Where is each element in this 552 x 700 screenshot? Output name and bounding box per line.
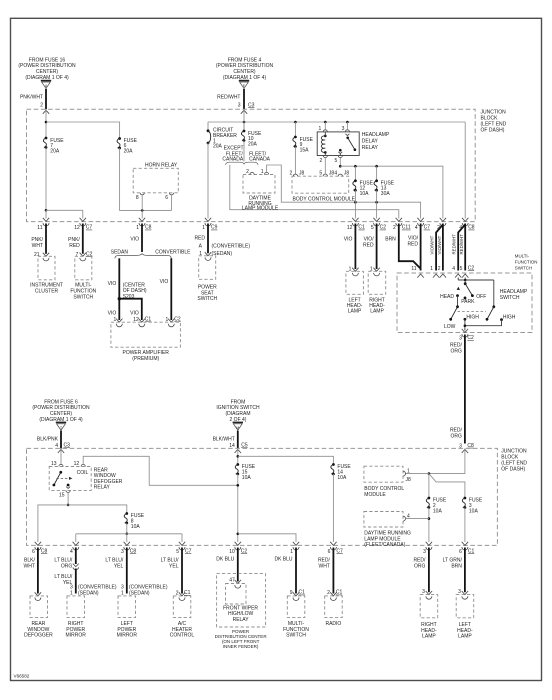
wire fuse 15 down to pin 10 C2 [237, 474, 239, 542]
svg-text:VIO: VIO [130, 311, 139, 317]
MFS entry connectors [417, 274, 423, 278]
wire PNK/WHT feed to junction block [45, 89, 47, 109]
svg-text:C1: C1 [468, 549, 475, 555]
svg-text:OF DASH): OF DASH) [481, 128, 505, 134]
JB1 exit pin 11 [43, 218, 49, 226]
wire RED/WHT pair to MFS pins 4 and 5 [458, 225, 465, 271]
defogger relay pin 13 connector [59, 464, 63, 466]
fuse 9 15A [294, 122, 296, 137]
svg-text:C8: C8 [468, 225, 475, 231]
svg-text:2: 2 [393, 225, 396, 231]
svg-text:C3: C3 [64, 443, 71, 449]
rear window defogger box [35, 592, 41, 600]
svg-text:RED: RED [69, 243, 80, 249]
wire VIO to amplifier split [141, 224, 143, 253]
svg-text:5: 5 [371, 225, 374, 231]
svg-text:1: 1 [290, 549, 293, 555]
passing switch blade [487, 307, 494, 320]
wire LT BLU/YEL to right power mirror [75, 569, 77, 594]
node DRL2 join [428, 517, 431, 520]
fuse 10 20A [243, 122, 245, 131]
instrument cluster pin 21 [43, 253, 49, 261]
JB1 exit pin 1 C8 [139, 218, 145, 226]
wire circuit breaker down to pin 1 C9 [207, 143, 209, 219]
svg-text:3: 3 [459, 336, 462, 342]
svg-text:3: 3 [423, 549, 426, 555]
svg-text:RELAY: RELAY [362, 145, 379, 151]
svg-text:2: 2 [438, 266, 441, 272]
JB2 exit pin 6 C1 [462, 542, 468, 550]
svg-text:RADIO: RADIO [325, 621, 341, 627]
svg-text:2: 2 [290, 171, 293, 177]
wire DRL2 pin 4 to fuse 2 line [406, 518, 429, 520]
junction block 1 (left end of dash) dashed border [27, 109, 476, 221]
svg-text:30A: 30A [381, 191, 391, 197]
svg-text:6: 6 [328, 549, 331, 555]
svg-text:15A: 15A [300, 147, 310, 153]
wire high contact to output [465, 320, 502, 326]
label EXCEPT FLEET/CANADA [222, 146, 244, 163]
wire entry down to bus [243, 109, 245, 131]
svg-text:C11: C11 [402, 225, 411, 231]
wire drop to pin 12 C1 [354, 202, 356, 218]
relay switch throw to pin 5 [339, 149, 342, 152]
svg-text:C2: C2 [467, 335, 474, 341]
wire RED/WHT to radio [332, 548, 334, 594]
node bus entry [243, 121, 246, 124]
svg-text:4: 4 [415, 225, 418, 231]
feed header FROM FUSE 4 [216, 57, 274, 81]
wiper direction arrow [457, 287, 460, 290]
wire fuse 7 output [45, 148, 47, 211]
svg-text:SWITCH: SWITCH [73, 294, 93, 300]
entry connector pin 2 [43, 110, 49, 114]
svg-text:5: 5 [335, 158, 338, 164]
svg-text:10A: 10A [360, 191, 370, 197]
svg-text:BLK/WHT: BLK/WHT [213, 437, 235, 443]
svg-text:15: 15 [59, 493, 65, 499]
svg-text:WHT: WHT [319, 564, 330, 570]
wire horn relay pin 6 [171, 195, 173, 210]
JB1 exit pin 4 C7 [417, 218, 423, 226]
instrument cluster box [38, 256, 55, 280]
svg-text:SWITCH: SWITCH [197, 296, 217, 302]
svg-text:VIO/WHT: VIO/WHT [437, 235, 442, 254]
body control module box (lower) [364, 466, 403, 482]
svg-text:C8: C8 [41, 549, 48, 555]
svg-text:3: 3 [458, 589, 461, 595]
svg-text:ORG: ORG [451, 348, 463, 354]
label daytime running lamp module [242, 196, 279, 212]
wire drop to pin 3 C8 [126, 534, 128, 542]
node relay output [339, 165, 342, 168]
svg-text:J8: J8 [344, 171, 350, 177]
left headlamp box (bottom) [462, 591, 468, 599]
svg-text:2: 2 [320, 158, 323, 164]
wire BLK/WHT to rear window defogger [37, 548, 39, 594]
svg-text:C2: C2 [380, 225, 387, 231]
svg-text:BRN: BRN [385, 236, 396, 242]
power amplifier box [111, 322, 180, 347]
wire drop to pin 11 [45, 210, 47, 218]
node bus relay pin 3 [346, 121, 349, 124]
splice node S203 [118, 297, 121, 300]
wire fuse 10 down to market brace [243, 141, 245, 162]
wire VIO/WHT pair to MFS pins 1 and 2 [436, 225, 443, 271]
svg-text:6: 6 [165, 195, 168, 201]
svg-text:12: 12 [347, 225, 353, 231]
wire PNK/WHT to instrument cluster [45, 224, 47, 254]
wire fuse 14 down to pin 6 C7 [332, 474, 334, 542]
svg-text:V66582: V66582 [14, 673, 30, 678]
svg-text:C8: C8 [130, 549, 137, 555]
relay pin 2 connector [323, 156, 327, 158]
fuse 8 10A [124, 512, 128, 524]
svg-text:LAMP: LAMP [370, 309, 384, 315]
JB1 exit pin 1 C9 [205, 218, 211, 226]
wire pin 15 down [67, 493, 69, 505]
relay switch contact [59, 471, 62, 474]
wire RED to power seat switch [207, 224, 209, 254]
multifunction switch pin 7 C2 [80, 253, 86, 261]
node bus fuse 9 [294, 121, 297, 124]
svg-text:3: 3 [422, 589, 425, 595]
svg-text:MULTI-: MULTI- [515, 253, 530, 258]
relay pin 5 connector [338, 156, 342, 158]
wire RED/ORG long run to JB2 [464, 335, 466, 444]
svg-text:A: A [199, 244, 203, 250]
right headlamp box [368, 271, 386, 294]
svg-text:VIO: VIO [108, 281, 117, 287]
left power mirror box [118, 596, 136, 618]
svg-text:YEL: YEL [114, 564, 124, 570]
fuse 14 10A [331, 463, 335, 475]
svg-text:COIL: COIL [77, 470, 89, 476]
svg-text:YEL: YEL [169, 564, 179, 570]
svg-text:C1: C1 [336, 590, 343, 596]
body control module dashed box [292, 176, 349, 193]
node line A fuse 12 [354, 201, 357, 204]
svg-text:OF DASH): OF DASH) [501, 467, 525, 473]
svg-text:1: 1 [430, 266, 433, 272]
svg-text:RED: RED [194, 236, 205, 242]
svg-text:2: 2 [40, 102, 43, 108]
svg-text:1: 1 [319, 126, 322, 132]
JB1 exit pin 12 C7 [80, 218, 86, 226]
fuse 15 10A [235, 463, 239, 475]
headlamp delay relay box [317, 132, 359, 156]
wire defogger output left to pin 6 C8 [38, 505, 68, 542]
JB2 exit pin 6 C7 [330, 542, 336, 550]
svg-text:4: 4 [334, 171, 337, 177]
wire HEAD to dimmer [457, 296, 459, 307]
node fuse15/relay12 join [237, 484, 240, 487]
svg-text:12: 12 [74, 461, 80, 467]
svg-text:M: M [236, 426, 239, 430]
rotary switch wiper to OFF [465, 284, 472, 296]
wire fuse 2 down to pin 3 [428, 508, 430, 543]
fuse 7 20A [43, 137, 47, 149]
front wiper high/low relay box [235, 580, 241, 588]
daytime running lamp module (fleet/canada) box [364, 512, 403, 528]
wire to BCM2 pin 1 J8 [406, 473, 429, 475]
svg-text:(SEDAN): (SEDAN) [78, 591, 99, 597]
svg-text:C2: C2 [241, 549, 248, 555]
fuse 3 10A [462, 497, 466, 509]
daytime running lamp module dashed box [243, 175, 275, 194]
svg-text:VIO: VIO [130, 236, 139, 242]
svg-text:BREAKER: BREAKER [213, 133, 237, 139]
wire branch to fuse 6 [46, 122, 120, 139]
node branch to fuse 6 [45, 121, 48, 124]
DRL pin 2 connector [250, 172, 254, 174]
horn relay pin 6 connector [169, 193, 173, 195]
wire BLK/PNK feed [60, 431, 62, 449]
HIGH contact right [500, 318, 503, 321]
svg-text:7: 7 [76, 252, 79, 258]
svg-text:10A: 10A [469, 508, 479, 514]
svg-text:ORG: ORG [61, 564, 73, 570]
BCM pin 2 J8 connector [293, 174, 297, 176]
fuse 13 30A [376, 166, 378, 181]
node pin15 junction [67, 504, 70, 507]
sedan/convertible brace [115, 254, 171, 259]
wire BLK/PNK to defogger relay pin 13 [60, 448, 62, 464]
node bus relay pin 1 [324, 121, 327, 124]
svg-text:RED/WHT: RED/WHT [452, 234, 457, 255]
svg-text:20A: 20A [124, 148, 134, 154]
svg-text:HIGH: HIGH [466, 314, 479, 320]
svg-text:HIGH: HIGH [503, 314, 516, 320]
svg-text:3: 3 [238, 102, 241, 108]
svg-text:WHT: WHT [32, 243, 43, 249]
svg-text:HEAD: HEAD [440, 294, 454, 300]
wire VIO/RED to right headlamp [376, 224, 378, 270]
a/c heater control box [179, 592, 185, 600]
svg-text:SEDAN: SEDAN [111, 249, 129, 255]
svg-text:RED: RED [363, 242, 374, 248]
svg-text:13: 13 [51, 461, 57, 467]
wire BRN to MFS pin 11 [399, 224, 421, 269]
svg-text:VIO/WHT: VIO/WHT [430, 235, 435, 254]
JB2 exit pin 3 C8 [124, 542, 130, 550]
JB1 exit pin 2 C11 [396, 218, 402, 226]
wire jog to fuse 3 [429, 474, 465, 498]
svg-text:C1: C1 [145, 317, 152, 323]
svg-text:5: 5 [319, 171, 322, 177]
JB1 exit pin 5 C2 [373, 218, 379, 226]
wire relay output line to pin 2 drop [340, 166, 443, 218]
wire branch to pin 1 [238, 534, 296, 542]
svg-text:MIRROR: MIRROR [117, 633, 138, 639]
JB2 exit pin 4 [73, 542, 79, 550]
fuse 2 10A [426, 497, 430, 509]
svg-text:1: 1 [261, 169, 264, 175]
svg-text:RED: RED [407, 242, 418, 248]
svg-text:10: 10 [229, 549, 235, 555]
relay actuation dashed arrow [57, 477, 70, 479]
entry connector pin 3 C3 [241, 110, 247, 114]
svg-text:C2: C2 [468, 265, 475, 271]
wire DRL pin1 output elbow to line A [267, 165, 421, 219]
JB2 exit pin 10 C2 [235, 542, 241, 550]
svg-text:2: 2 [246, 169, 249, 175]
svg-text:12: 12 [74, 225, 80, 231]
svg-text:C7: C7 [185, 549, 192, 555]
rear window defogger relay dashed box [49, 467, 91, 491]
wire RED/WHT feed to junction block [243, 89, 245, 109]
svg-text:C9: C9 [211, 225, 218, 231]
wire horn junction down to pin 1 C8 [141, 210, 143, 218]
BCM pin 4 J8 connector [338, 174, 342, 176]
wire relay pin 5 output [339, 158, 341, 166]
svg-text:(FLEET/CANADA): (FLEET/CANADA) [364, 542, 405, 548]
wire relay pin 12 elbow to ignition bus [83, 456, 238, 485]
wire fuse 8 to mirror bus [126, 523, 128, 534]
fuse 6 20A [117, 137, 121, 149]
svg-text:C7: C7 [336, 549, 343, 555]
svg-text:C1: C1 [299, 590, 306, 596]
svg-text:SWITCH: SWITCH [500, 295, 520, 301]
wire VIO S203 branch to amp pin 12 [119, 299, 142, 320]
svg-text:C3: C3 [248, 102, 255, 108]
wire DK BLU to front wiper relay [237, 548, 239, 582]
svg-text:VIO: VIO [344, 236, 353, 242]
svg-text:2: 2 [327, 590, 330, 596]
node DK BLU branch [237, 533, 240, 536]
svg-text:10A: 10A [242, 475, 252, 481]
svg-text:LAMP: LAMP [422, 634, 436, 640]
svg-text:21: 21 [34, 252, 40, 258]
multi-function switch (headlamp switch) dashed box [397, 273, 532, 333]
node fuse7 split [45, 209, 48, 212]
DRL2 pin 4 side connector [403, 516, 406, 521]
wire BLK/WHT down with node [237, 448, 239, 464]
svg-text:(PREMIUM): (PREMIUM) [132, 356, 159, 362]
wire RED/ORG inside JB2 [429, 448, 465, 473]
left headlamp pin 1 [352, 268, 358, 276]
svg-text:RED/WHT: RED/WHT [459, 234, 464, 255]
svg-text:OFF: OFF [476, 294, 486, 300]
svg-text:9: 9 [290, 590, 293, 596]
svg-text:CONVERTIBLE: CONVERTIBLE [155, 249, 191, 255]
right power mirror box [67, 596, 85, 618]
power distribution center box [217, 574, 266, 627]
wire DK BLU to multifunction switch [295, 548, 297, 594]
svg-text:CONTROL: CONTROL [170, 633, 195, 639]
power amplifier pins 1 / 12 C1 / 1 C2 [116, 319, 122, 327]
svg-text:RELAY: RELAY [94, 485, 111, 491]
wire branch to pin 12 C7 [46, 210, 83, 218]
svg-text:10A: 10A [337, 475, 347, 481]
wire horn relay pin 8 [141, 195, 143, 210]
svg-text:DK BLU: DK BLU [216, 557, 234, 563]
multifunction switch box (left) [75, 256, 92, 280]
svg-text:MODULE: MODULE [364, 492, 386, 498]
wire VIO convertible branch to amp pin 1 C2 [170, 258, 172, 320]
wire LT GRN/BRN to left headlamp [464, 548, 466, 593]
svg-text:(SEDAN): (SEDAN) [212, 251, 233, 257]
multifunction switch box (bottom) [293, 592, 299, 600]
svg-text:J8: J8 [406, 477, 412, 483]
wire LT BLU/YEL to a/c heater control [181, 548, 183, 594]
junction block 2 (left end of dash) dashed border [27, 448, 498, 545]
svg-text:DELAY: DELAY [362, 139, 379, 145]
wire relay pin 2 to BCM pin 5 [324, 158, 326, 175]
wire fuse 9 to BCM pin 2 [294, 147, 296, 175]
JB1 exit pin 2 (double) [440, 218, 446, 226]
node horn relay feed [141, 209, 144, 212]
node line A fuse 13 [375, 201, 378, 204]
feed header FROM IGNITION SWITCH [216, 399, 260, 423]
HEAD contact [456, 294, 459, 297]
fuse 12 10A [354, 166, 356, 181]
svg-text:HEADLAMP: HEADLAMP [362, 132, 390, 138]
svg-text:WHT: WHT [24, 564, 35, 570]
svg-text:RED/WHT: RED/WHT [217, 95, 240, 101]
svg-text:T: T [60, 426, 62, 430]
svg-text:C8: C8 [145, 225, 152, 231]
relay pin 3 connector [345, 130, 349, 132]
svg-text:ORG: ORG [414, 564, 426, 570]
svg-text:20A: 20A [50, 148, 60, 154]
wire LT BLU/YEL to left power mirror [126, 548, 128, 594]
svg-text:6: 6 [459, 549, 462, 555]
JB2 exit pin 1 [293, 542, 299, 550]
DRL pin 1 connector [265, 172, 269, 174]
feed connector triangle A [41, 81, 51, 89]
svg-text:C2: C2 [174, 317, 181, 323]
feed header FROM FUSE 16 [18, 57, 76, 81]
right headlamp pin 1 [373, 268, 379, 276]
wire VIO/RED to MFS pin 11 [420, 224, 422, 271]
svg-text:47: 47 [229, 578, 235, 584]
wire except-fleet bypass [230, 165, 399, 219]
MFS output pin 3 C2 [462, 329, 468, 337]
svg-text:ORG: ORG [451, 434, 463, 440]
svg-text:1: 1 [202, 225, 205, 231]
bus wire from circuit breaker to right side [208, 121, 465, 123]
wire BCM node down to fuse 2 [428, 474, 430, 498]
label FLEET/CANADA [249, 151, 271, 162]
wire drop to pin 5 C7 [181, 534, 183, 542]
svg-text:PNK/WHT: PNK/WHT [20, 95, 43, 101]
svg-text:C7: C7 [86, 225, 93, 231]
wire bus right end down to pin 4 C8 [464, 122, 466, 219]
svg-text:BLK/PNK: BLK/PNK [37, 437, 59, 443]
svg-text:5: 5 [176, 549, 179, 555]
svg-text:BODY CONTROL MODULE: BODY CONTROL MODULE [293, 197, 356, 203]
svg-text:LOW: LOW [444, 324, 456, 330]
svg-text:INNER FENDER): INNER FENDER) [223, 644, 259, 649]
node fuse 13 tap [375, 165, 378, 168]
JB2 entry connectors [58, 449, 64, 453]
wire PNK/RED to multi-function switch [82, 224, 84, 254]
horn relay pin 8 connector [140, 193, 144, 195]
svg-text:LAMP MODULE: LAMP MODULE [242, 206, 279, 212]
dimmer blade to LOW [451, 307, 458, 320]
svg-text:LAMP: LAMP [348, 309, 362, 315]
svg-text:CANADA: CANADA [222, 157, 244, 163]
node fuse 12 tap [354, 165, 357, 168]
svg-text:BRN: BRN [451, 564, 462, 570]
wire RED/ORG to right headlamp [428, 548, 430, 593]
svg-text:LAMP: LAMP [458, 634, 472, 640]
svg-text:DEFOGGER: DEFOGGER [24, 633, 53, 639]
node BCM feed [428, 472, 431, 475]
svg-text:4: 4 [70, 549, 73, 555]
feed header FROM FUSE 6 [32, 399, 90, 423]
